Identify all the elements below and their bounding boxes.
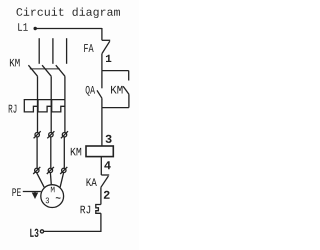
label RJ control xyxy=(81,206,91,214)
label FA xyxy=(84,44,93,52)
contact KM main blade C xyxy=(56,65,65,76)
connector row1 phase B xyxy=(47,131,54,138)
coil KM rectangle xyxy=(86,146,113,157)
contact QA blade xyxy=(97,90,102,98)
wire join to coil xyxy=(101,108,103,146)
contact KM aux lower terminal xyxy=(128,94,130,107)
wire RJ to bottom corner xyxy=(44,213,101,231)
wire phase A mid xyxy=(37,76,39,99)
label node 1 xyxy=(106,55,111,62)
wire phase B below RJ xyxy=(50,100,52,133)
motor M circle xyxy=(41,185,64,208)
contact KM aux blade xyxy=(123,86,129,94)
wire phase A top xyxy=(38,38,40,64)
contact KM main blade B xyxy=(42,65,51,76)
contact RJ thermal NC bump xyxy=(96,205,101,214)
wire phase A row1-row2 xyxy=(36,137,38,168)
label KM coil xyxy=(71,148,81,156)
contact KM main blade A xyxy=(28,65,37,76)
wire join bar xyxy=(102,107,129,109)
label KA xyxy=(87,178,97,186)
wire phase B row1-row2 xyxy=(50,137,52,168)
wire phase B mid xyxy=(50,76,52,99)
wire split bar xyxy=(102,70,129,72)
label L3 xyxy=(30,229,38,237)
label PE xyxy=(12,188,20,196)
label M motor xyxy=(51,187,55,193)
connector row1 phase A xyxy=(34,131,41,138)
label KM aux xyxy=(111,86,122,94)
label node 4 xyxy=(104,161,110,169)
wire FA to split xyxy=(101,53,103,70)
wire L1 top horizontal xyxy=(37,28,102,30)
label L1 xyxy=(18,23,28,31)
wire phase C mid xyxy=(64,76,66,99)
contact KA lower terminal xyxy=(100,187,102,204)
wire phase C into motor xyxy=(60,173,64,188)
label ~ motor xyxy=(56,197,61,199)
node L1 terminal dot xyxy=(34,27,37,30)
label node 2 xyxy=(104,191,110,199)
contact QA lower terminal xyxy=(101,98,103,107)
linkage KM main xyxy=(30,68,60,70)
wire phase C top xyxy=(66,38,68,64)
wire phase A below RJ xyxy=(37,100,39,133)
wire phase A into motor xyxy=(37,173,45,188)
contact KA tick xyxy=(101,174,109,176)
label RJ heaters xyxy=(9,105,17,113)
label node 3 xyxy=(106,135,112,143)
wire control drop to FA xyxy=(101,28,103,40)
title Circuit diagram xyxy=(17,8,120,19)
wire phase C row1-row2 xyxy=(63,137,65,168)
label 3 motor xyxy=(46,198,49,204)
connector row2 phase A xyxy=(33,167,40,174)
heater RJ phase C xyxy=(52,100,65,112)
ground PE arrow xyxy=(33,192,37,198)
heater RJ phase A xyxy=(24,100,37,112)
breaker FA blade xyxy=(102,41,110,53)
wire phase B top xyxy=(52,38,54,64)
wire phase C below RJ xyxy=(64,100,66,133)
connector row1 phase C xyxy=(61,131,68,138)
wire PE to motor xyxy=(23,191,41,193)
connector row2 phase B xyxy=(47,167,54,174)
connector row2 phase C xyxy=(60,167,67,174)
contact QA upper terminal xyxy=(101,71,103,89)
breaker FA tick xyxy=(102,39,110,41)
wire coil to KA xyxy=(100,157,102,175)
label KM main xyxy=(10,59,20,67)
node L3 terminal circle xyxy=(40,230,43,233)
heater RJ phase B xyxy=(38,100,51,112)
wire phase B into motor xyxy=(49,173,52,185)
contact KA blade xyxy=(101,176,109,187)
label QA xyxy=(86,86,95,96)
contact KM aux upper terminal xyxy=(128,71,130,81)
